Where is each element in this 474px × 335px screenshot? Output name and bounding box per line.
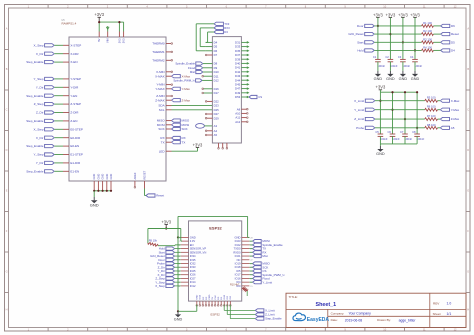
svg-text:IO17: IO17 <box>235 273 241 277</box>
svg-text:C6: C6 <box>387 130 391 134</box>
svg-text:IO34: IO34 <box>190 254 196 258</box>
svg-text:R7 100: R7 100 <box>427 114 436 118</box>
svg-text:100nF: 100nF <box>390 64 398 68</box>
svg-text:A3: A3 <box>214 124 218 128</box>
svg-text:GND: GND <box>190 235 196 239</box>
svg-text:IO21: IO21 <box>235 254 241 258</box>
svg-text:Grbl_Reset: Grbl_Reset <box>348 32 363 36</box>
svg-text:EasyEDA: EasyEDA <box>307 317 330 323</box>
svg-text:R2 100: R2 100 <box>423 29 432 33</box>
svg-text:Z_Dir: Z_Dir <box>36 111 43 115</box>
svg-text:Reset: Reset <box>451 32 459 36</box>
svg-text:Date:: Date: <box>331 318 338 322</box>
svg-text:Hold: Hold <box>357 49 364 53</box>
svg-text:RESET: RESET <box>143 170 147 179</box>
svg-text:H: H <box>467 308 469 312</box>
svg-text:Door: Door <box>357 24 364 28</box>
svg-text:E0-EN: E0-EN <box>70 144 79 148</box>
svg-text:TXD0: TXD0 <box>234 247 241 251</box>
svg-text:Your Company: Your Company <box>349 312 372 316</box>
svg-text:E: E <box>467 188 469 192</box>
svg-text:Y_Dir: Y_Dir <box>36 161 44 165</box>
svg-text:E0-STEP: E0-STEP <box>70 127 83 131</box>
svg-text:Z_Step: Z_Step <box>34 102 44 106</box>
svg-text:Mist: Mist <box>262 254 267 258</box>
svg-text:Y-MAX: Y-MAX <box>155 87 164 91</box>
svg-text:REV: REV <box>433 302 440 306</box>
svg-text:Sheet:: Sheet: <box>433 312 442 316</box>
svg-text:GND: GND <box>386 77 395 81</box>
svg-text:Company:: Company: <box>331 312 345 316</box>
svg-text:GND: GND <box>90 203 99 208</box>
svg-text:100nF: 100nF <box>377 64 385 68</box>
svg-text:TX: TX <box>182 140 186 144</box>
svg-text:3V3: 3V3 <box>117 38 121 43</box>
svg-text:Sheet_1: Sheet_1 <box>316 302 337 308</box>
svg-text:GND: GND <box>92 174 96 180</box>
svg-text:R1 100: R1 100 <box>423 21 432 25</box>
svg-text:GND: GND <box>105 174 109 180</box>
svg-text:GND: GND <box>101 174 105 180</box>
svg-text:IO23: IO23 <box>235 239 241 243</box>
svg-text:X_Step: X_Step <box>155 284 165 288</box>
svg-text:IO15: IO15 <box>224 294 226 300</box>
svg-text:IO25: IO25 <box>190 269 196 273</box>
svg-text:+3V3: +3V3 <box>373 12 383 17</box>
svg-text:C: C <box>6 107 8 111</box>
svg-text:Step_Enable: Step_Enable <box>26 94 44 98</box>
svg-text:100nF: 100nF <box>415 64 423 68</box>
svg-text:G: G <box>6 269 8 273</box>
svg-text:GND: GND <box>376 152 385 156</box>
svg-text:Step_Enable: Step_Enable <box>26 60 44 64</box>
svg-text:D5: D5 <box>451 40 455 44</box>
svg-text:Step_Enable: Step_Enable <box>26 119 44 123</box>
svg-text:GND: GND <box>197 294 199 299</box>
svg-text:ESP32: ESP32 <box>211 313 221 317</box>
svg-text:GND: GND <box>96 174 100 180</box>
svg-text:X-EN: X-EN <box>70 60 77 64</box>
svg-text:D17: D17 <box>214 91 220 95</box>
svg-text:1.0: 1.0 <box>447 302 452 306</box>
svg-text:B: B <box>6 67 8 71</box>
svg-text:IO35: IO35 <box>190 258 196 262</box>
svg-text:A5: A5 <box>451 126 455 130</box>
svg-text:3V3: 3V3 <box>122 38 126 43</box>
svg-text:+3V3: +3V3 <box>386 12 396 17</box>
svg-text:D: D <box>6 148 8 152</box>
svg-text:28: 28 <box>250 237 252 239</box>
svg-text:D12: D12 <box>214 79 220 83</box>
svg-text:Step_Enable: Step_Enable <box>26 169 44 173</box>
svg-text:Y-STEP: Y-STEP <box>70 77 81 81</box>
svg-text:Z_Limit: Z_Limit <box>354 117 364 121</box>
svg-text:X-DIR: X-DIR <box>70 52 79 56</box>
svg-text:RXD0: RXD0 <box>233 250 241 254</box>
svg-text:R3 100: R3 100 <box>423 37 432 41</box>
svg-text:X-Max: X-Max <box>451 99 460 103</box>
svg-text:ESP32: ESP32 <box>209 225 222 230</box>
svg-text:22: 22 <box>250 260 252 262</box>
svg-text:Z-DIR: Z-DIR <box>70 111 79 115</box>
svg-text:R9 10k: R9 10k <box>149 239 158 243</box>
svg-text:D4: D4 <box>451 49 455 53</box>
svg-text:D53: D53 <box>235 95 241 99</box>
svg-text:C1: C1 <box>373 55 377 59</box>
svg-text:100nF: 100nF <box>405 137 413 141</box>
svg-text:SCK: SCK <box>182 127 188 131</box>
svg-text:5V: 5V <box>97 38 101 41</box>
svg-text:Y-Max: Y-Max <box>451 108 460 112</box>
svg-text:100nF: 100nF <box>417 137 425 141</box>
svg-text:THERM0: THERM0 <box>152 42 165 46</box>
svg-text:IO32: IO32 <box>190 262 196 266</box>
svg-text:Drawn By:: Drawn By: <box>377 318 391 322</box>
svg-text:IO22: IO22 <box>235 243 241 247</box>
svg-text:C4: C4 <box>410 55 414 59</box>
svg-text:VIN: VIN <box>106 38 110 43</box>
svg-text:A: A <box>467 26 469 30</box>
svg-text:IO18: IO18 <box>235 265 241 269</box>
svg-text:E0-DIR: E0-DIR <box>70 136 81 140</box>
svg-text:TITLE:: TITLE: <box>289 295 298 299</box>
svg-text:Y_Limit: Y_Limit <box>262 280 272 284</box>
svg-text:C: C <box>467 107 469 111</box>
svg-text:Mist: Mist <box>190 70 195 74</box>
svg-text:IO26: IO26 <box>190 273 196 277</box>
svg-text:R8 100: R8 100 <box>427 123 436 127</box>
svg-text:IO14: IO14 <box>190 280 196 284</box>
svg-text:Probe: Probe <box>356 126 364 130</box>
svg-text:E: E <box>6 188 8 192</box>
svg-text:IO19: IO19 <box>235 262 241 266</box>
svg-text:A12: A12 <box>235 120 240 124</box>
svg-text:Step_Enable: Step_Enable <box>26 144 44 148</box>
svg-text:Y-DIR: Y-DIR <box>70 85 79 89</box>
svg-text:15: 15 <box>250 286 252 288</box>
svg-text:IO33: IO33 <box>190 265 196 269</box>
svg-text:+3V3: +3V3 <box>376 85 386 90</box>
svg-text:+3V3: +3V3 <box>410 12 420 17</box>
svg-text:Y-Max: Y-Max <box>182 87 191 91</box>
svg-text:3.3V: 3.3V <box>190 239 196 243</box>
svg-text:D: D <box>467 148 469 152</box>
svg-text:D3: D3 <box>224 30 228 34</box>
svg-text:X_Step: X_Step <box>34 43 44 47</box>
svg-text:SENSOR_VN: SENSOR_VN <box>190 250 207 254</box>
svg-text:D7: D7 <box>214 53 218 57</box>
svg-text:GND: GND <box>174 317 183 321</box>
svg-text:D6: D6 <box>451 24 455 28</box>
svg-text:100nF: 100nF <box>392 137 400 141</box>
svg-text:Spindle_PWM_!v: Spindle_PWM_!v <box>173 79 195 83</box>
svg-text:THERM1: THERM1 <box>152 50 165 54</box>
svg-text:EN: EN <box>190 243 194 247</box>
svg-text:CLK: CLK <box>215 295 217 300</box>
svg-text:Z-Max: Z-Max <box>182 98 191 102</box>
svg-text:Y_Dir: Y_Dir <box>36 85 44 89</box>
svg-text:IO27: IO27 <box>190 276 196 280</box>
svg-text:2: 2 <box>179 241 180 243</box>
svg-text:B: B <box>467 67 469 71</box>
svg-text:X_Dir: X_Dir <box>36 52 44 56</box>
svg-text:G: G <box>467 269 469 273</box>
svg-text:SCL: SCL <box>159 108 165 112</box>
svg-text:GND: GND <box>109 174 113 180</box>
svg-text:IO5: IO5 <box>236 269 241 273</box>
svg-text:IO12: IO12 <box>190 284 196 288</box>
svg-text:A5: A5 <box>214 133 218 137</box>
svg-text:Y_Limit: Y_Limit <box>354 108 364 112</box>
svg-text:C7: C7 <box>400 130 404 134</box>
svg-text:C5: C5 <box>375 130 379 134</box>
svg-text:Z-Max: Z-Max <box>451 117 460 121</box>
svg-text:CMD: CMD <box>209 294 211 299</box>
svg-text:RAMPS1.4: RAMPS1.4 <box>62 21 77 25</box>
svg-text:Start: Start <box>357 40 364 44</box>
svg-text:Step_Enable: Step_Enable <box>265 317 282 321</box>
svg-text:IO13: IO13 <box>200 294 202 300</box>
svg-text:+3V3: +3V3 <box>193 142 203 147</box>
svg-text:100nF: 100nF <box>402 64 410 68</box>
svg-text:C3: C3 <box>398 55 402 59</box>
svg-text:X-MAX: X-MAX <box>155 74 165 78</box>
svg-text:GND: GND <box>411 77 420 81</box>
svg-text:1/1: 1/1 <box>447 312 452 316</box>
svg-text:R5 100: R5 100 <box>427 96 436 100</box>
svg-text:Y-EN: Y-EN <box>70 94 77 98</box>
svg-text:GND: GND <box>374 77 383 81</box>
svg-text:2019-06-08: 2019-06-08 <box>345 318 362 322</box>
svg-text:X-MIN: X-MIN <box>156 70 165 74</box>
svg-text:TX: TX <box>161 140 165 144</box>
svg-text:LED: LED <box>159 149 166 153</box>
svg-text:R6 100: R6 100 <box>427 105 436 109</box>
svg-text:X_Limit: X_Limit <box>354 99 364 103</box>
svg-text:NC: NC <box>237 258 241 262</box>
svg-text:Z-STEP: Z-STEP <box>70 102 81 106</box>
svg-text:agge_bitter: agge_bitter <box>399 318 417 322</box>
svg-text:THERM2: THERM2 <box>152 58 165 62</box>
svg-text:Z-MAX: Z-MAX <box>155 98 164 102</box>
svg-text:D29: D29 <box>214 116 220 120</box>
svg-text:+3V3: +3V3 <box>161 219 171 224</box>
svg-text:H: H <box>6 308 8 312</box>
svg-text:Y_Step: Y_Step <box>34 77 44 81</box>
svg-text:+3V3: +3V3 <box>398 12 408 17</box>
svg-text:AREF: AREF <box>133 172 137 179</box>
svg-text:SCK: SCK <box>158 127 164 131</box>
svg-text:E1-EN: E1-EN <box>70 169 79 173</box>
svg-text:SENSOR_VP: SENSOR_VP <box>190 247 207 251</box>
svg-text:Y_Step: Y_Step <box>34 153 44 157</box>
svg-text:Reset: Reset <box>156 194 164 198</box>
svg-text:X-STEP: X-STEP <box>70 43 81 47</box>
svg-text:Z-EN: Z-EN <box>70 119 77 123</box>
svg-text:CS: CS <box>258 95 262 99</box>
svg-text:+3V3: +3V3 <box>94 12 104 17</box>
svg-text:X_Step: X_Step <box>34 127 44 131</box>
svg-text:C2: C2 <box>385 55 389 59</box>
svg-text:E1-STEP: E1-STEP <box>70 153 83 157</box>
svg-text:E1-DIR: E1-DIR <box>70 161 81 165</box>
svg-text:C8: C8 <box>412 130 416 134</box>
svg-text:X_Dir: X_Dir <box>36 136 44 140</box>
svg-text:A: A <box>6 26 8 30</box>
svg-text:100nF: 100nF <box>380 137 388 141</box>
svg-text:R10 4k7: R10 4k7 <box>230 284 240 287</box>
svg-text:R4 100: R4 100 <box>423 45 432 49</box>
svg-text:GND: GND <box>399 77 408 81</box>
svg-text:GND: GND <box>235 235 241 239</box>
svg-text:IO16: IO16 <box>235 276 241 280</box>
